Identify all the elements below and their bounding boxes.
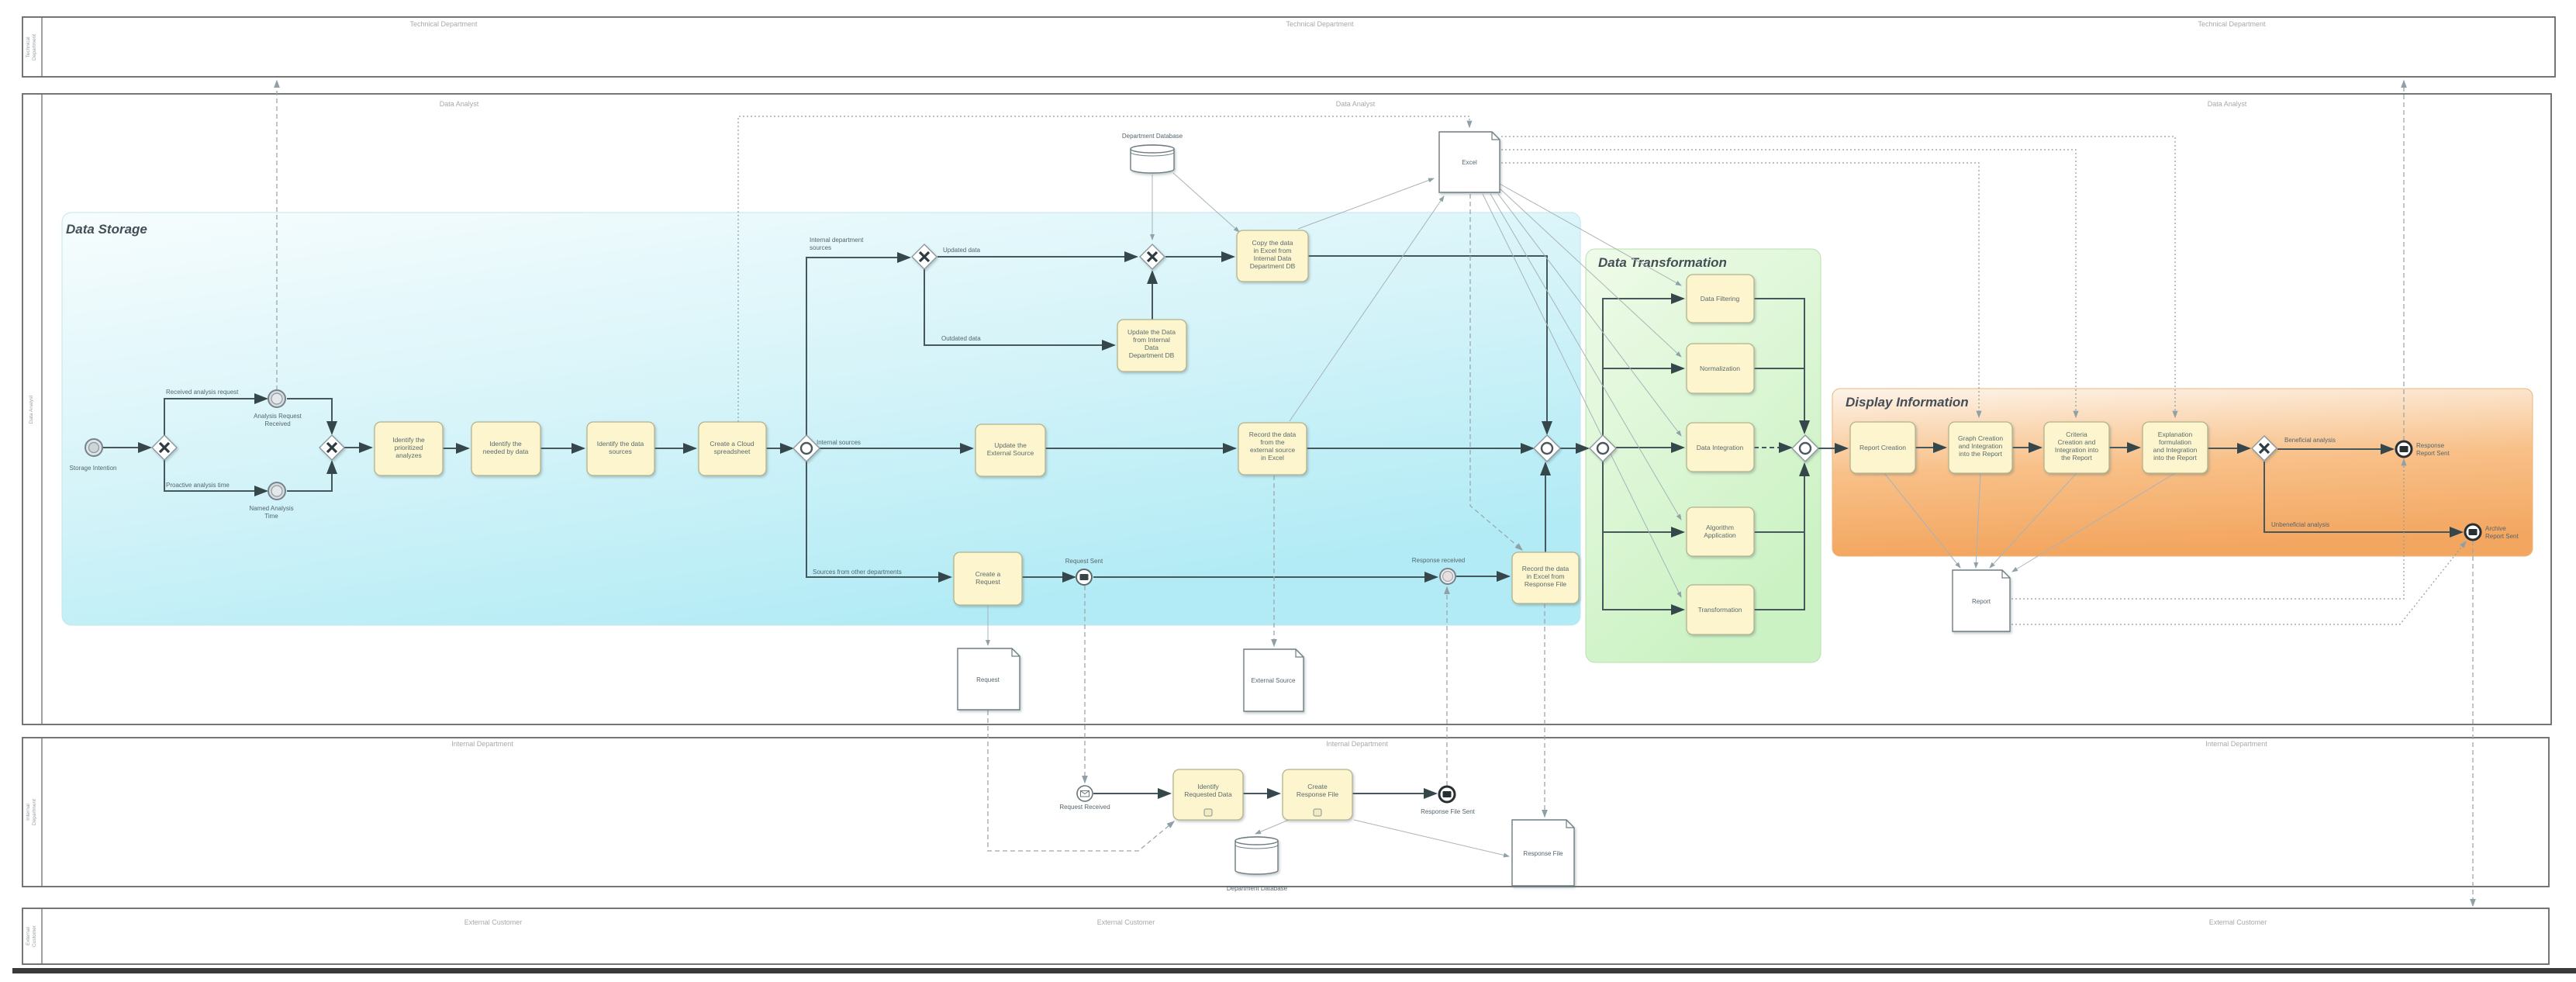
svg-text:from Internal: from Internal: [1133, 336, 1170, 344]
association orange task 4 to Report: [2012, 473, 2175, 572]
wire G1 up to gateway XA (internal department sources): [806, 258, 910, 436]
svg-text:External Customer: External Customer: [464, 918, 523, 926]
svg-text:into the Report: into the Report: [2153, 454, 2197, 462]
svg-text:from the: from the: [1260, 438, 1284, 446]
svg-text:Update the Data: Update the Data: [1127, 328, 1176, 336]
svg-text:Internal sources: Internal sources: [817, 439, 861, 446]
svg-text:Request Received: Request Received: [1059, 804, 1110, 811]
task Create a Request: [954, 552, 1022, 605]
association Department Database to task Copy the data: [1173, 173, 1239, 232]
wire task Copy the data to merge gateway Gm (top): [1308, 256, 1547, 434]
svg-text:Proactive analysis time: Proactive analysis time: [166, 482, 230, 489]
wire task chain 1-2: [443, 448, 468, 449]
association fan Excel to Normalization: [1500, 188, 1681, 357]
document External Source: [1244, 649, 1304, 711]
data store Department Database (pool3): [1227, 837, 1288, 892]
svg-text:Response File: Response File: [1297, 790, 1339, 798]
end event Response Report Sent: [2396, 441, 2450, 457]
svg-text:Report Creation: Report Creation: [1859, 444, 1906, 451]
message flow end event Archive Report Sent down to pool External Customer: [2472, 541, 2474, 906]
wire start to gateway X1: [103, 447, 150, 448]
association task Copy the data to Excel: [1298, 178, 1434, 229]
orange task Explanation formulation and Integration into the Report: [2143, 422, 2208, 473]
svg-text:Unbeneficial analysis: Unbeneficial analysis: [2271, 521, 2329, 528]
wire Xo to end event Response Report Sent (beneficial analysis): [2277, 448, 2393, 450]
svg-text:Named Analysis: Named Analysis: [249, 505, 293, 512]
wire orange task chain 2-3: [2012, 447, 2041, 448]
orange task Criteria Creation and Integration into the Report: [2044, 422, 2109, 473]
svg-text:External Source: External Source: [1252, 677, 1296, 684]
svg-text:Internal Department: Internal Department: [451, 740, 513, 748]
throw event Request Sent: [1065, 558, 1103, 585]
svg-text:Internal department: Internal department: [810, 237, 864, 244]
catch event Named Analysis Time: [249, 482, 293, 520]
svg-text:Department DB: Department DB: [1250, 262, 1296, 270]
wire X1 top branch to catch event A: [164, 399, 267, 435]
svg-text:Internal Data: Internal Data: [1254, 254, 1292, 262]
data object Excel: [1439, 132, 1500, 192]
svg-text:Request Sent: Request Sent: [1065, 558, 1103, 565]
wire XA to XB (updated data): [938, 256, 1137, 258]
svg-text:Department: Department: [32, 799, 37, 825]
svg-text:Analysis Request: Analysis Request: [254, 413, 302, 420]
wire task Record from Response File up into Gm: [1545, 463, 1546, 552]
wire orange task chain 3-4: [2109, 447, 2139, 448]
gateway XA: [912, 244, 937, 269]
svg-text:Technical: Technical: [26, 36, 31, 58]
association Department Database down to XB: [1152, 175, 1153, 240]
svg-text:in Excel: in Excel: [1261, 454, 1284, 462]
svg-text:Graph Creation: Graph Creation: [1958, 434, 2003, 442]
svg-text:External: External: [26, 927, 31, 946]
catch event Response received: [1412, 557, 1465, 584]
svg-text:Normalization: Normalization: [1700, 365, 1740, 372]
pool External Customer (collapsed, bottom): [22, 908, 2549, 964]
wire Gm to green inclusive gateway GL: [1560, 448, 1588, 449]
svg-text:Response File Sent: Response File Sent: [1421, 808, 1476, 815]
group Data Transformation (green): [1586, 249, 1821, 662]
pool Internal Department: [22, 738, 2549, 887]
association fan Excel to Transformation: [1483, 194, 1681, 597]
svg-text:Internal: Internal: [26, 804, 31, 821]
svg-text:Criteria: Criteria: [2066, 430, 2087, 438]
svg-text:Creation and: Creation and: [2058, 438, 2096, 446]
pool3 task Create Response File: [1283, 769, 1352, 820]
task Copy the data in Excel from Internal Data Department DB: [1237, 230, 1308, 282]
svg-text:Create: Create: [1307, 783, 1328, 790]
wire X2 to task Identify the prioritized analyzes: [344, 447, 371, 448]
svg-text:Record the data: Record the data: [1522, 565, 1569, 572]
gateway XB: [1140, 244, 1165, 269]
svg-text:into the Report: into the Report: [1959, 450, 2002, 458]
svg-text:Transformation: Transformation: [1698, 606, 1742, 614]
svg-text:Outdated data: Outdated data: [941, 335, 981, 342]
green inclusive gateway GL: [1590, 435, 1616, 462]
task Update the External Source: [975, 424, 1045, 476]
green task Data Filtering: [1687, 275, 1754, 323]
green task Transformation: [1687, 585, 1754, 634]
svg-text:External Source: External Source: [987, 449, 1034, 457]
svg-text:Request: Request: [975, 578, 1000, 586]
wire rail to Normalization: [1603, 368, 1683, 369]
merge inclusive gateway Gm: [1534, 435, 1560, 462]
svg-text:Request: Request: [976, 676, 1000, 683]
document Report: [1953, 570, 2010, 631]
svg-text:Data Storage: Data Storage: [66, 222, 147, 237]
svg-text:Identify the: Identify the: [392, 436, 425, 444]
association Excel dashed down to task Record from Response File: [1470, 194, 1522, 550]
association Report dotted to vertical of end event 1: [2011, 459, 2404, 599]
svg-text:Technical Department: Technical Department: [409, 20, 478, 28]
svg-text:Data Analyst: Data Analyst: [1336, 100, 1376, 108]
wire Algorithm Application to right rail: [1754, 531, 1804, 533]
svg-text:External Customer: External Customer: [2209, 918, 2267, 926]
pool3 task Identify Requested Data: [1173, 769, 1243, 820]
svg-text:Department Database: Department Database: [1227, 885, 1288, 892]
wire Normalization to right rail: [1754, 368, 1804, 369]
wire pool3 start to task Identify Requested Data: [1093, 793, 1170, 794]
association Excel to orange task Criteria (dotted): [1501, 150, 2076, 417]
svg-text:Identify the: Identify the: [489, 440, 522, 448]
svg-text:Internal Department: Internal Department: [2205, 740, 2267, 748]
wire pool3 task 1 to task Create Response File: [1243, 793, 1279, 794]
svg-text:Archive: Archive: [2485, 525, 2506, 532]
svg-text:Application: Application: [1704, 531, 1736, 539]
svg-text:in Excel from: in Excel from: [1526, 572, 1564, 580]
svg-text:Create a Cloud: Create a Cloud: [710, 440, 754, 448]
wire Transformation to right rail into GR bottom: [1754, 464, 1804, 610]
task Record the data in Excel from Response File: [1512, 552, 1579, 603]
svg-text:Identify: Identify: [1197, 783, 1219, 790]
pool Data Analyst (main): [22, 94, 2551, 724]
catch event Analysis Request Received: [254, 390, 302, 427]
svg-text:external source: external source: [1250, 446, 1295, 454]
wire Request Sent to catch event Response received: [1093, 576, 1437, 578]
svg-text:Response: Response: [2416, 442, 2445, 449]
wire G1 down to task Create a Request (sources from other departments): [806, 461, 951, 577]
svg-text:Requested Data: Requested Data: [1184, 790, 1232, 798]
document Response File: [1512, 820, 1574, 886]
wire GL rail up and to Data Filtering: [1603, 299, 1683, 435]
svg-text:Identify the data: Identify the data: [597, 440, 644, 448]
svg-text:Received: Received: [264, 420, 290, 427]
svg-text:in Excel from: in Excel from: [1253, 247, 1291, 254]
start event Storage Intention: [70, 439, 117, 472]
svg-text:Explanation: Explanation: [2158, 430, 2193, 438]
svg-text:Excel: Excel: [1462, 159, 1477, 166]
association orange task 2 to Report: [1976, 473, 1980, 568]
svg-text:Response received: Response received: [1412, 557, 1465, 564]
svg-text:Report Sent: Report Sent: [2485, 533, 2519, 540]
pool3 start event Request Received: [1059, 786, 1110, 811]
association task Record from Response File dashed to Response File doc: [1544, 603, 1545, 817]
association task Record external down to External Source doc: [1273, 475, 1275, 646]
group Data Storage (cyan): [62, 213, 1580, 625]
svg-text:Data: Data: [1145, 344, 1159, 351]
svg-text:Report Sent: Report Sent: [2416, 450, 2450, 457]
svg-text:Data Integration: Data Integration: [1697, 444, 1744, 451]
task Identify the prioritized analyzes: [375, 422, 443, 475]
svg-text:Data Transformation: Data Transformation: [1598, 255, 1727, 270]
document Request: [958, 648, 1020, 710]
wire Response received to task Record data in Excel from Response File: [1456, 576, 1509, 577]
task Identify the data sources: [587, 422, 654, 475]
svg-text:Technical Department: Technical Department: [1286, 20, 1354, 28]
green task Data Integration: [1687, 423, 1754, 472]
green task Normalization: [1687, 344, 1754, 393]
wire orange task chain 1-2: [1915, 447, 1946, 448]
wire GR to task Report Creation: [1818, 448, 1847, 449]
svg-text:sources: sources: [609, 448, 632, 455]
task Update the Data from Internal Data Department DB: [1117, 320, 1186, 372]
gateway X1: [152, 435, 177, 460]
svg-text:Received analysis request: Received analysis request: [166, 389, 239, 396]
pool3 end event Response File Sent: [1421, 787, 1476, 815]
svg-text:Department DB: Department DB: [1129, 351, 1175, 359]
wire catch event B to gateway X2: [287, 462, 332, 491]
pool Technical Department (collapsed, top): [22, 17, 2555, 77]
svg-text:and Integration: and Integration: [1959, 442, 2003, 450]
data store Department Database (top): [1122, 133, 1183, 173]
svg-text:prioritized: prioritized: [395, 444, 423, 451]
wire catch event A to gateway X2: [287, 399, 332, 434]
wire G1 to task Update the External Source: [820, 448, 972, 449]
group Display Information (orange): [1832, 389, 2533, 556]
association task Create a Cloud spreadsheet up/over to Excel: [738, 116, 1469, 422]
svg-text:needed by data: needed by data: [483, 448, 529, 455]
task Record the data from the external source in Excel: [1238, 423, 1307, 475]
svg-text:Beneficial analysis: Beneficial analysis: [2284, 437, 2336, 444]
bottom separator bar: [12, 968, 2576, 973]
svg-text:Integration into: Integration into: [2055, 446, 2099, 454]
wire rail down to Transformation: [1603, 532, 1683, 610]
association Excel to orange task Explanation (dotted): [1501, 137, 2175, 417]
gateway Xo: [2252, 436, 2277, 461]
svg-text:Copy the data: Copy the data: [1252, 239, 1293, 247]
wire task chain 3-4: [654, 448, 696, 449]
svg-text:Data Analyst: Data Analyst: [440, 100, 479, 108]
svg-text:Sources from other departments: Sources from other departments: [813, 569, 902, 576]
association orange task 3 to Report: [1990, 473, 2077, 568]
association Excel to orange task Graph (dotted): [1501, 163, 1979, 417]
wire task Record external to merge gateway Gm: [1307, 448, 1533, 449]
gateway X2: [319, 435, 344, 460]
wire GL to Data Integration: [1616, 447, 1683, 448]
message flow end event Response Report Sent up to pool Technical Department: [2403, 81, 2405, 441]
association fan Excel to Data Integration: [1498, 194, 1681, 436]
message flow Request Sent down to pool3 start event: [1084, 586, 1086, 783]
svg-text:Create a: Create a: [975, 570, 1001, 578]
svg-text:Data Filtering: Data Filtering: [1701, 295, 1740, 303]
wire X1 bottom branch to catch event B: [164, 460, 267, 491]
wire Data Filtering to right rail into GR top: [1754, 299, 1804, 433]
orange task Report Creation: [1850, 422, 1915, 473]
wire task 4 to inclusive gateway G1: [766, 448, 792, 449]
wire task chain 2-3: [540, 448, 584, 449]
wire Data Integration dashed to GR: [1754, 447, 1791, 448]
wire Xo down to end event Archive Report Sent (unbeneficial analysis): [2264, 462, 2462, 532]
association task Record external to Excel: [1290, 196, 1444, 421]
task Identify the needed by data: [471, 422, 540, 475]
svg-text:Response File: Response File: [1523, 850, 1563, 857]
wire XA down to task Update the Data from Internal DB (outdated data): [924, 269, 1114, 345]
svg-text:Internal Department: Internal Department: [1326, 740, 1388, 748]
wire task Update the External Source to task Record the data external: [1045, 448, 1235, 449]
svg-text:Storage Intention: Storage Intention: [70, 465, 117, 472]
svg-text:Report: Report: [1972, 598, 1991, 605]
svg-text:Update the: Update the: [994, 441, 1027, 449]
svg-text:analyzes: analyzes: [395, 451, 422, 459]
svg-text:Updated data: Updated data: [943, 247, 981, 254]
association Report dotted to end event Archive Report Sent: [2011, 541, 2466, 624]
wire task Update the Data up into XB: [1152, 271, 1153, 320]
green task Algorithm Application: [1687, 507, 1754, 556]
svg-text:Customer: Customer: [32, 925, 37, 947]
end event Archive Report Sent: [2465, 524, 2519, 540]
inclusive gateway G1: [793, 435, 861, 462]
wire task Create a Request to throw event Request Sent: [1022, 576, 1075, 578]
message flow catch event A to pool Technical Department: [276, 81, 278, 390]
wire rail down to Algorithm Application: [1603, 462, 1683, 532]
svg-text:Department Database: Department Database: [1122, 133, 1183, 140]
association pool3 task Create Response File to Response File doc: [1354, 820, 1509, 856]
orange task Graph Creation and Integration into the Report: [1949, 422, 2012, 473]
wire pool3 task 2 to end event Response File Sent: [1352, 793, 1436, 794]
wire XB to task Copy the data in Excel: [1165, 256, 1234, 258]
message flow pool3 end event up to Response received: [1446, 587, 1448, 786]
svg-text:sources: sources: [810, 244, 831, 251]
green inclusive gateway GR: [1792, 435, 1818, 462]
svg-text:Department: Department: [32, 34, 37, 61]
association task Create a Request to Request doc: [987, 606, 989, 645]
association orange task 1 to Report: [1884, 473, 1960, 568]
svg-text:Time: Time: [264, 513, 278, 520]
svg-text:Data Analyst: Data Analyst: [2208, 100, 2247, 108]
association fan Excel to Data Filtering: [1500, 184, 1681, 285]
svg-text:Technical Department: Technical Department: [2198, 20, 2266, 28]
svg-text:formulation: formulation: [2159, 438, 2191, 446]
svg-text:Response File: Response File: [1525, 580, 1567, 588]
svg-text:Record the data: Record the data: [1249, 430, 1297, 438]
wire orange task 4 to gateway Xo: [2208, 448, 2250, 449]
svg-text:Algorithm: Algorithm: [1706, 524, 1734, 531]
svg-text:Display Information: Display Information: [1846, 395, 1969, 410]
svg-text:spreadsheet: spreadsheet: [714, 448, 751, 455]
association fan Excel to Algorithm Application: [1490, 194, 1681, 520]
svg-text:and Integration: and Integration: [2153, 446, 2198, 454]
task Create a Cloud spreadsheet: [699, 422, 766, 475]
association Request doc dashed to pool3 task Identify Requested Data: [988, 711, 1174, 851]
svg-text:Data Analyst: Data Analyst: [29, 396, 34, 424]
svg-text:the Report: the Report: [2061, 454, 2092, 462]
svg-text:External Customer: External Customer: [1097, 918, 1155, 926]
association pool3 task Create Response File to Department Database 2: [1255, 820, 1289, 834]
